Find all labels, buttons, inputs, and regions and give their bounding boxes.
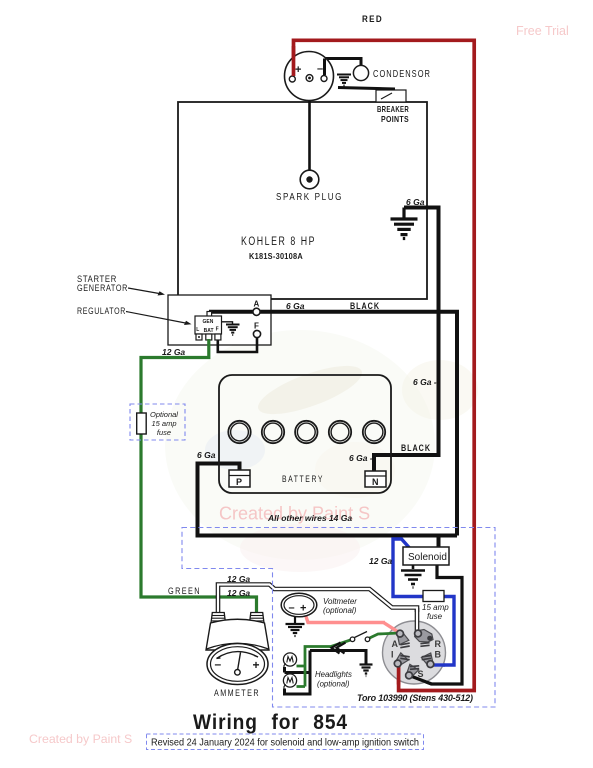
svg-text:P: P — [236, 477, 242, 487]
ammeter face — [207, 644, 268, 685]
battery cell caps — [228, 421, 385, 443]
svg-text:(optional): (optional) — [323, 606, 357, 615]
svg-text:REGULATOR: REGULATOR — [77, 306, 126, 316]
ammeter body — [206, 619, 269, 650]
wire coil minus tip — [323, 59, 326, 76]
wire regulator tab to terminal A to solenoid junction (6 Ga BLACK) — [209, 312, 457, 536]
wire white tip into M — [415, 608, 420, 633]
wire 12 Ga white: ammeter to switch M — [218, 585, 417, 614]
svg-text:Revised 24 January 2024 for so: Revised 24 January 2024 for solenoid and… — [151, 738, 419, 749]
wire red tip into I — [397, 664, 401, 685]
battery P terminal — [229, 470, 250, 487]
headlight lamp 2 — [283, 674, 296, 687]
SWITCH AREA — [357, 608, 473, 703]
svg-text:fuse: fuse — [427, 612, 443, 621]
svg-text:Optional: Optional — [150, 410, 178, 419]
ammeter scale arc — [217, 652, 259, 659]
headlight lamp 1 — [283, 653, 296, 666]
condensor — [353, 65, 368, 80]
spark plug wire — [308, 80, 311, 171]
svg-text:F: F — [254, 322, 259, 331]
svg-text:(optional): (optional) — [317, 680, 350, 689]
ignition switch body — [383, 621, 446, 684]
spark plug — [300, 170, 319, 189]
svg-text:R: R — [435, 639, 442, 649]
svg-text:6 Ga -: 6 Ga - — [349, 453, 373, 463]
headlight switch lever — [355, 632, 368, 638]
wire green: headlights to switch lever — [297, 640, 353, 687]
svg-text:BREAKER: BREAKER — [377, 104, 409, 114]
switch terminal I — [392, 653, 409, 670]
svg-text:KOHLER 8 HP: KOHLER 8 HP — [241, 236, 316, 248]
svg-text:All other wires 14 Ga: All other wires 14 Ga — [267, 513, 352, 523]
svg-text:RED: RED — [362, 14, 383, 24]
regulator lug BAT — [206, 334, 212, 340]
wire condensor to points — [338, 88, 395, 90]
coil terminal HT — [306, 75, 313, 82]
svg-text:Voltmeter: Voltmeter — [323, 597, 357, 606]
svg-text:Created by Paint S: Created by Paint S — [29, 732, 132, 746]
arrow to starter generator — [128, 288, 162, 294]
svg-text:GEN: GEN — [203, 319, 214, 325]
switch terminal B — [421, 653, 436, 669]
svg-text:6 Ga: 6 Ga — [286, 301, 305, 311]
switch terminal M (top center, bent flag) — [415, 630, 433, 643]
revision note dashed box — [147, 734, 424, 750]
solenoid — [403, 547, 449, 565]
generator terminal A — [253, 308, 260, 315]
arrow to regulator — [126, 312, 188, 324]
starter generator box — [168, 295, 271, 345]
wire solenoid trigger to switch S (14 Ga) — [410, 565, 462, 684]
svg-text:Headlights: Headlights — [315, 670, 352, 679]
svg-text:B: B — [435, 650, 442, 660]
svg-text:BAT: BAT — [204, 328, 214, 334]
svg-text:+: + — [300, 603, 306, 615]
svg-text:12 Ga: 12 Ga — [227, 574, 250, 584]
voltmeter ground — [286, 617, 305, 637]
svg-text:GREEN: GREEN — [168, 586, 201, 597]
wire pink: voltmeter plus to switch A — [306, 615, 386, 623]
optional 15 amp fuse — [137, 413, 147, 434]
dashed box all other wires — [182, 528, 495, 708]
switch terminal A — [394, 628, 409, 644]
wire black tip from S — [410, 676, 432, 684]
svg-text:12 Ga: 12 Ga — [227, 588, 250, 598]
wire green tip into A — [369, 633, 400, 639]
15 amp fuse — [423, 591, 444, 602]
ground engine block — [391, 208, 418, 239]
svg-text:CONDENSOR: CONDENSOR — [373, 69, 431, 80]
breaker points — [376, 90, 406, 102]
voltmeter — [281, 593, 317, 617]
coil terminal minus — [321, 76, 327, 82]
svg-text:BLACK: BLACK — [350, 301, 380, 311]
ignition coil — [285, 52, 334, 101]
ENGINE — [178, 80, 439, 471]
wire blue tip into B — [430, 663, 445, 666]
ammeter left post — [211, 613, 226, 624]
svg-text:6 Ga: 6 Ga — [197, 450, 216, 460]
svg-text:BATTERY: BATTERY — [282, 474, 324, 485]
svg-text:A: A — [254, 300, 260, 309]
svg-text:–: – — [289, 602, 295, 614]
connector chevron — [332, 643, 346, 654]
svg-text:12 Ga: 12 Ga — [369, 556, 392, 566]
wire black: headlights to ground — [285, 651, 367, 695]
wire battery P to solenoid junction (6 Ga) — [198, 464, 458, 536]
DASHED BOXES AND TITLES — [147, 513, 496, 750]
REGULATOR AREA — [77, 274, 457, 613]
svg-text:Solenoid: Solenoid — [408, 552, 447, 563]
svg-text:+: + — [253, 658, 260, 672]
svg-text:BLACK: BLACK — [401, 443, 431, 453]
svg-text:+: + — [295, 64, 301, 76]
svg-text:A: A — [392, 639, 399, 649]
optional fuse dashed box — [130, 404, 185, 440]
generator terminal F — [253, 330, 260, 337]
svg-text:12 Ga: 12 Ga — [162, 347, 185, 357]
headlight switch ground — [360, 665, 373, 677]
battery N terminal — [365, 471, 386, 487]
battery — [219, 375, 391, 493]
ammeter needle — [238, 653, 241, 671]
regulator box — [207, 312, 212, 317]
BATTERY AREA — [197, 375, 457, 548]
condensor mount earth symbol — [337, 75, 351, 86]
SOLENOID AREA — [369, 539, 462, 684]
svg-text:–: – — [317, 63, 323, 75]
COIL AREA — [285, 14, 475, 691]
wire BLUE 12 Ga: solenoid to fuse to switch B — [393, 539, 454, 665]
wire coil minus to condensor — [325, 59, 362, 76]
svg-text:Wiring for 854: Wiring for 854 — [193, 711, 348, 734]
METERS — [206, 574, 417, 699]
ammeter right post — [250, 613, 265, 624]
coil terminal plus — [289, 76, 295, 82]
svg-text:L: L — [196, 327, 199, 333]
svg-text:GENERATOR: GENERATOR — [77, 283, 128, 293]
switch terminal S — [403, 664, 419, 681]
svg-text:fuse: fuse — [157, 428, 171, 437]
svg-text:S: S — [418, 669, 424, 679]
svg-text:SPARK PLUG: SPARK PLUG — [276, 192, 343, 203]
svg-text:I: I — [391, 650, 394, 660]
svg-text:15 amp: 15 amp — [422, 603, 449, 612]
wire red tip to coil plus — [292, 46, 296, 76]
junction stub to solenoid — [437, 536, 441, 549]
wire pink tip into A — [384, 623, 400, 633]
svg-text:6 Ga -: 6 Ga - — [413, 377, 437, 387]
svg-text:15 amp: 15 amp — [151, 419, 176, 428]
regulator ground — [222, 322, 233, 324]
wire RED: coil plus to switch I terminal — [294, 40, 475, 690]
svg-text:F: F — [216, 327, 219, 333]
regulator lug F — [215, 334, 221, 340]
svg-text:–: – — [215, 657, 222, 671]
engine box Kohler 8HP — [178, 102, 427, 299]
svg-text:Toro 103990 (Stens 430-512): Toro 103990 (Stens 430-512) — [357, 693, 473, 703]
svg-text:N: N — [372, 477, 379, 487]
svg-text:K181S-30108A: K181S-30108A — [249, 251, 303, 261]
rivet R — [427, 636, 432, 641]
svg-text:Free Trial: Free Trial — [516, 24, 569, 38]
solenoid ground — [401, 565, 425, 588]
wire ground to battery N terminal (black 6 Ga) — [374, 208, 439, 472]
svg-text:POINTS: POINTS — [381, 114, 409, 124]
wire GREEN 12 Ga: regulator BAT lug to ammeter — [141, 339, 257, 613]
svg-text:AMMETER: AMMETER — [214, 688, 260, 699]
regulator lug L — [196, 334, 202, 340]
wire F terminal to regulator F lug — [218, 336, 257, 352]
